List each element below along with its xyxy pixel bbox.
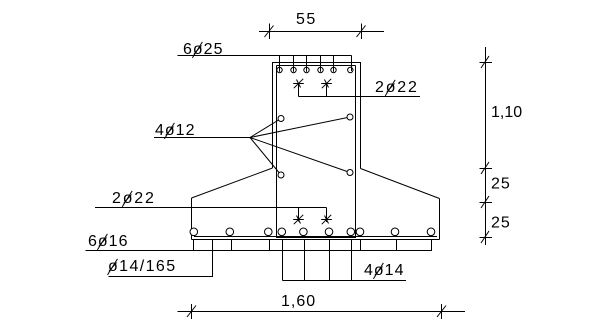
6ø16 bar line (194, 236, 437, 238)
bottom bar circles (190, 228, 435, 236)
column right bar line (355, 66, 357, 238)
right dim tick bottom (480, 231, 493, 243)
2ø22 top leader line (299, 96, 421, 98)
svg-text:6ø16: 6ø16 (88, 233, 128, 250)
phi slash of top 2ø22 (385, 80, 395, 96)
svg-text:1,60: 1,60 (281, 293, 316, 310)
right dim tick top (480, 56, 493, 68)
ø14/165 leader underline (109, 276, 214, 278)
phi slash of 6ø25 (192, 42, 202, 58)
dimension 1,60 line (178, 311, 466, 313)
footing right edge (439, 199, 441, 240)
column outer outline (272, 63, 361, 169)
svg-text:2ø22: 2ø22 (375, 79, 419, 96)
4ø14 thick bar line (276, 236, 356, 238)
label 4ø12 leader line (154, 137, 250, 139)
2ø22 bottom leader line (95, 207, 327, 209)
4ø14 leader bottom line (283, 280, 407, 282)
dimension 55 left tick (265, 24, 274, 40)
bar 6ø25 circles (277, 67, 353, 72)
phi slash of 4ø12 (164, 123, 174, 139)
2ø22 bottom anchor mark right (321, 215, 332, 224)
2ø22 top anchor mark right (321, 79, 332, 97)
bar 6ø25 hook lines (280, 56, 352, 72)
label 6ø25 leader line (178, 55, 352, 57)
svg-text:4ø14: 4ø14 (364, 262, 404, 279)
svg-text:1,10: 1,10 (491, 104, 522, 121)
footing right slope (361, 169, 440, 199)
dimension 55 line (259, 31, 384, 33)
4ø12 fan line to lower-right bar (250, 138, 350, 173)
4ø14 leader verticals (283, 240, 352, 281)
4ø12 fan line to upper-right bar (250, 117, 350, 138)
2ø22 bottom drop right (326, 208, 328, 223)
4ø12 fan line to lower-left bar (250, 138, 281, 176)
2ø22 top anchor mark left (293, 79, 304, 97)
svg-text:4ø12: 4ø12 (155, 122, 195, 139)
footing left edge (191, 198, 193, 240)
phi slash of ø14/165 (108, 259, 118, 275)
right dim tick middle (480, 196, 493, 208)
phi slash of bottom 2ø22 (122, 191, 132, 207)
right dim tick at 1,10 (480, 162, 493, 174)
comb bottom line joined with 6ø16 leader (86, 250, 433, 252)
svg-text:2ø22: 2ø22 (112, 190, 156, 207)
svg-text:ø14/165: ø14/165 (108, 258, 177, 275)
dimension 55 right tick (357, 24, 366, 40)
right dimension chain line (485, 47, 487, 245)
svg-text:55: 55 (296, 11, 317, 28)
column stirrup inner top (277, 65, 356, 67)
4ø12 fan line to upper-left bar (250, 119, 281, 138)
svg-text:25: 25 (491, 176, 511, 193)
phi slash of 6ø16 (97, 234, 107, 250)
svg-text:25: 25 (491, 215, 511, 232)
column left bar line (276, 66, 278, 238)
footing bottom edge (192, 239, 440, 241)
2ø22 bottom drop left (298, 208, 300, 222)
ø14/165 leader vertical (212, 240, 214, 277)
dimension 1,60 right tick (437, 304, 446, 319)
4ø12 bar circles (278, 114, 353, 178)
dimension 1,60 left tick (187, 304, 196, 319)
footing left slope (192, 168, 273, 198)
phi slash of 4ø14 (373, 263, 383, 279)
2ø22 bottom anchor mark left (293, 215, 304, 224)
comb teeth short (194, 240, 432, 251)
